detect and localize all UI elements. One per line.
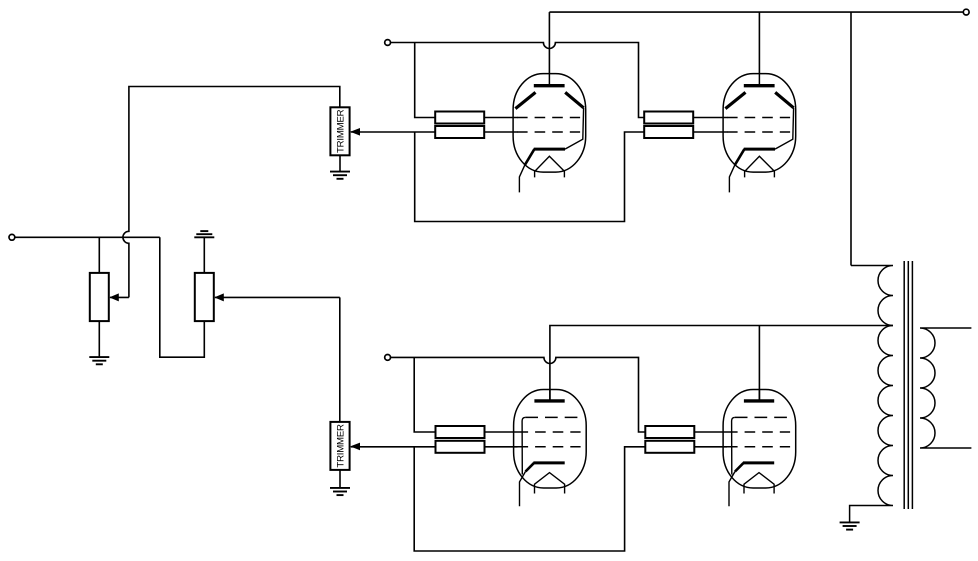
svg-text:TRIMMER: TRIMMER: [335, 109, 346, 153]
ground below transformer primary: [840, 522, 860, 529]
potentiometer P1: [90, 273, 119, 321]
wire: R6 to V3 grid: [485, 446, 518, 448]
wire: R7 to V4 grid: [694, 431, 727, 433]
wire: P4 wiper line to R6: [351, 446, 436, 448]
wire: feedback loop lower: [414, 447, 645, 551]
wire: junction drop to R1: [415, 43, 436, 118]
wire: input down/right/up to P2 bottom: [160, 237, 205, 357]
input terminal J2 (upper drive): [385, 40, 391, 46]
pentode V4: [723, 389, 796, 506]
inverted ground above P2: [194, 231, 214, 237]
grid resistors R7 R8 (V4): [645, 426, 694, 453]
wire: R4 to V2 grid: [693, 131, 727, 133]
grid resistors R3 R4 (V2): [644, 112, 693, 139]
transformer T1 core: [904, 261, 912, 509]
wire: rail down to transformer primary top: [850, 12, 852, 265]
wire: R5 to V3 grid: [485, 431, 518, 433]
input terminal J3 (lower drive): [385, 355, 391, 361]
wire: P2 wiper line: [215, 296, 340, 298]
ground below P1: [89, 357, 109, 364]
beam tetrode V2: [723, 73, 796, 192]
wire: P3 bottom lead: [339, 155, 341, 171]
wire: R2 to V1 grid: [484, 131, 517, 133]
beam tetrode V1: [513, 73, 586, 192]
wire: junction drop to R5: [414, 357, 435, 432]
wire: P1 bottom lead: [98, 321, 100, 357]
wire: V4 plate riser: [758, 326, 760, 401]
transformer T1 primary winding: [850, 266, 893, 523]
grid resistors R1 R2 (V1): [435, 112, 484, 139]
wire: P1 wiper line: [110, 296, 129, 298]
wire: P1 top lead: [98, 237, 100, 273]
trimmer potentiometer P4 (TRIMMER): [330, 422, 360, 470]
B+ terminal J4: [963, 9, 969, 15]
ground below P4: [330, 488, 350, 495]
pentode V3: [514, 389, 587, 506]
wire: V1 plate riser: [548, 12, 550, 73]
wire: P2 top lead: [203, 237, 205, 273]
wire: J3 rail with hop over V3 plate: [391, 357, 646, 432]
wire: input line J1 to corner: [15, 236, 160, 238]
ground below P3: [330, 172, 350, 179]
wire: P2 wiper down to TRIMMER P4 top: [339, 297, 341, 422]
svg-text:TRIMMER: TRIMMER: [335, 424, 346, 468]
wire: R3 to V2 grid: [693, 117, 727, 119]
trimmer potentiometer P3 (TRIMMER): [330, 107, 360, 155]
wire: R1 to V1 grid: [484, 117, 517, 119]
wire: P3 wiper line to R2: [351, 131, 435, 133]
wire: P1 wiper up with hop, to TRIMMER P3 top: [123, 87, 340, 298]
wire: V3 plate to transformer center tap: [550, 326, 893, 401]
wire: P4 bottom lead: [339, 470, 341, 488]
wire: feedback loop upper: [415, 132, 645, 222]
transformer T1 secondary winding: [920, 328, 971, 448]
input terminal J1: [9, 234, 15, 240]
wire: J2 rail with hop over V1 plate: [391, 43, 645, 118]
wire: V2 plate riser: [758, 12, 760, 73]
wire: B+ top rail: [549, 11, 963, 13]
grid resistors R5 R6 (V3): [436, 426, 485, 453]
potentiometer P2: [195, 273, 224, 321]
wire: R8 to V4 grid: [694, 446, 727, 448]
